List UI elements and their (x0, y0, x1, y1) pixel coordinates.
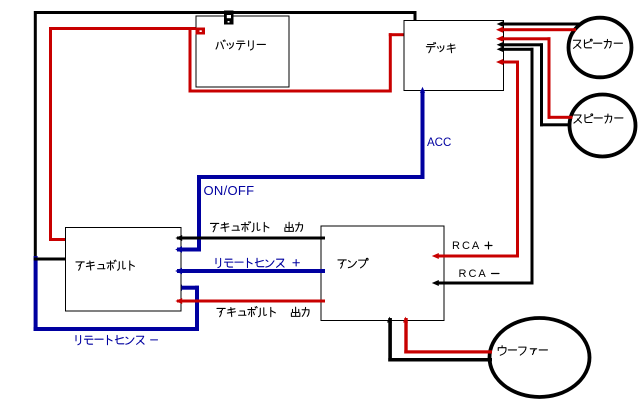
wire: blue remote-sense minus right vertical (195, 286, 199, 331)
arrow: black amp bottom pin (387, 317, 392, 323)
wire: blue ON/OFF left vertical (197, 175, 201, 252)
wire: deck pin2 red to speaker1 (500, 28, 576, 31)
wire: red into deck left (389, 33, 407, 36)
arrow: black accuvolt output pin (175, 235, 182, 241)
svg-text:RCA: RCA (452, 240, 481, 252)
svg-text:ON/OFF: ON/OFF (204, 183, 255, 198)
label: woofer text (498, 346, 547, 356)
arrow: deck pin4 (497, 42, 504, 48)
label: speaker1 text (573, 39, 622, 48)
arrow: deck pin2 (496, 27, 503, 33)
label: remote sense minus text (76, 335, 158, 344)
wire: red frame top horizontal (49, 27, 197, 30)
wire: red battery drop vertical (189, 27, 192, 93)
arrow: blue ACC at deck (420, 87, 425, 93)
wire: deck pin6 red RCA+ horizontal (500, 61, 519, 64)
arrow: deck pin6 (496, 59, 503, 65)
label: deck text (426, 42, 455, 52)
svg-text:ACC: ACC (427, 137, 451, 149)
deck box (404, 21, 504, 91)
wire: deck pin1 black to speaker1 (500, 23, 581, 26)
wire: blue ACC vertical (421, 90, 425, 179)
label: accuvolt box text (76, 260, 134, 270)
battery box (196, 16, 289, 87)
speaker 2 circle (570, 95, 636, 157)
amp box (321, 226, 444, 321)
label: accuvolt output top text (210, 222, 302, 232)
arrow: red amp bottom pin (403, 317, 408, 323)
arrow: red accuvolt output pin (175, 298, 182, 304)
arrow: RCA+ at amp (432, 253, 439, 259)
arrow: blue ON/OFF pin (175, 246, 182, 252)
wire: deck pin3 red to speaker2 horizontal (500, 37, 551, 40)
wire: RCA+ horizontal to amp (436, 255, 519, 258)
wire: blue ON/OFF pin horizontal (177, 248, 201, 252)
wire: black into accuvolt left (34, 258, 69, 261)
wire: black left frame vertical (34, 11, 37, 261)
speaker 1 circle (569, 18, 632, 78)
wire: RCA+ vertical (516, 61, 519, 258)
wire: deck pin4 black to speaker2 horizontal (500, 43, 543, 46)
wire: red into accuvolt left (49, 238, 69, 241)
wire: RCA- vertical (531, 48, 534, 285)
svg-text:RCA: RCA (459, 268, 488, 280)
accuvolt box (66, 228, 182, 312)
wire: red left frame vertical (49, 27, 52, 241)
label: remote sense plus text (216, 258, 299, 267)
wire: black accuvolt output to amp (177, 237, 325, 240)
wire: blue remote-sense minus left vertical (34, 256, 38, 331)
label: speaker2 text (574, 114, 623, 123)
wire: deck pin3 red vertical (548, 37, 551, 119)
label: battery text (216, 40, 265, 50)
wire: black top frame horizontal (34, 11, 417, 14)
wire: red amp to woofer vertical (404, 318, 407, 354)
arrow: deck pin1 (497, 21, 504, 27)
wire: black amp to woofer horizontal (388, 358, 492, 362)
arrow: blue remote-sense plus pin (175, 268, 182, 274)
wire: deck pin5 black RCA- horizontal (500, 48, 534, 51)
wire: deck pin4 black vertical (540, 43, 543, 126)
arrow: RCA- at amp (432, 280, 439, 286)
arrow: blue remote-sense minus pin (175, 285, 182, 291)
wire: red accuvolt output to amp (177, 300, 325, 303)
wire: blue ON/OFF horizontal (197, 175, 425, 179)
label: amp box text (338, 258, 368, 268)
wire: deck pin3 red into speaker2 (548, 116, 573, 119)
wire: deck pin4 black into speaker2 (540, 123, 571, 126)
woofer ellipse (490, 318, 590, 397)
arrow: deck pin3 (496, 36, 503, 42)
battery terminal connector (224, 11, 234, 25)
battery red connector square (196, 28, 206, 35)
label: accuvolt output bottom text (217, 307, 309, 317)
wire: blue remote-sense plus to amp (177, 269, 325, 273)
arrow: deck pin5 (497, 46, 504, 52)
wire: red under-battery horizontal (189, 90, 392, 93)
wire: RCA- horizontal to amp (436, 282, 534, 285)
wire: black stub down to deck top (414, 11, 417, 21)
wire: blue remote-sense minus bottom horizontal (34, 327, 199, 331)
wire: black amp to woofer vertical (388, 318, 392, 362)
wire: red riser to deck vertical (389, 33, 392, 92)
wire: blue remote-sense minus pin horizontal (177, 286, 199, 290)
wire: red amp to woofer horizontal (404, 350, 492, 353)
